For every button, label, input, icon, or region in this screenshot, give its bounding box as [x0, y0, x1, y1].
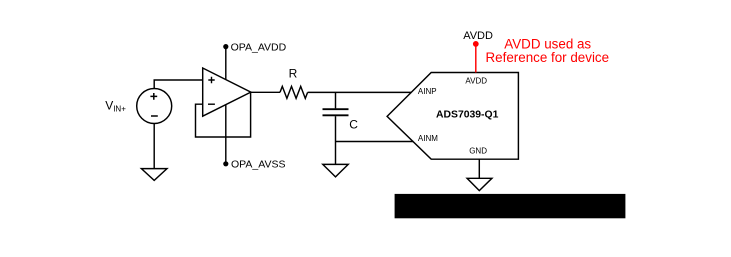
resistor R: [280, 86, 308, 98]
ground: [323, 164, 348, 177]
op-amp U1: [203, 68, 251, 116]
wire feedback loop: [196, 92, 251, 137]
wire noninverting input: [154, 80, 202, 89]
power pin OPA_AVDD: [223, 44, 228, 49]
ADC U2 ADS7039-Q1: [387, 73, 518, 160]
svg-text:AINP: AINP: [418, 87, 437, 96]
ground: [141, 169, 167, 181]
svg-text:AINM: AINM: [418, 134, 438, 143]
svg-text:OPA_AVDD: OPA_AVDD: [231, 42, 287, 54]
svg-text:OPA_AVSS: OPA_AVSS: [231, 159, 285, 171]
wire source to ground: [153, 123, 155, 168]
wire GND pin: [478, 159, 480, 178]
wire AINM: [336, 141, 414, 143]
redaction bar: [395, 194, 626, 218]
svg-text:AVDD: AVDD: [465, 76, 487, 85]
ground: [467, 178, 492, 190]
net AVDD wire (red): [475, 44, 477, 73]
svg-text:Reference for device: Reference for device: [486, 50, 610, 65]
capacitor C1: [335, 92, 337, 108]
power pin OPA_AVSS: [223, 161, 228, 166]
svg-text:AVDD: AVDD: [463, 30, 493, 42]
svg-text:C: C: [349, 118, 358, 132]
svg-text:ADS7039-Q1: ADS7039-Q1: [436, 110, 499, 121]
voltage source V1: [137, 89, 172, 124]
svg-text:R: R: [289, 67, 298, 81]
node AVDD (red dot): [473, 41, 479, 47]
wire op-amp output: [251, 91, 280, 93]
wire resistor to AINP: [308, 91, 412, 93]
svg-text:GND: GND: [469, 147, 487, 156]
wire capacitor to ground: [335, 116, 337, 164]
wire op-amp power rail: [225, 47, 227, 164]
